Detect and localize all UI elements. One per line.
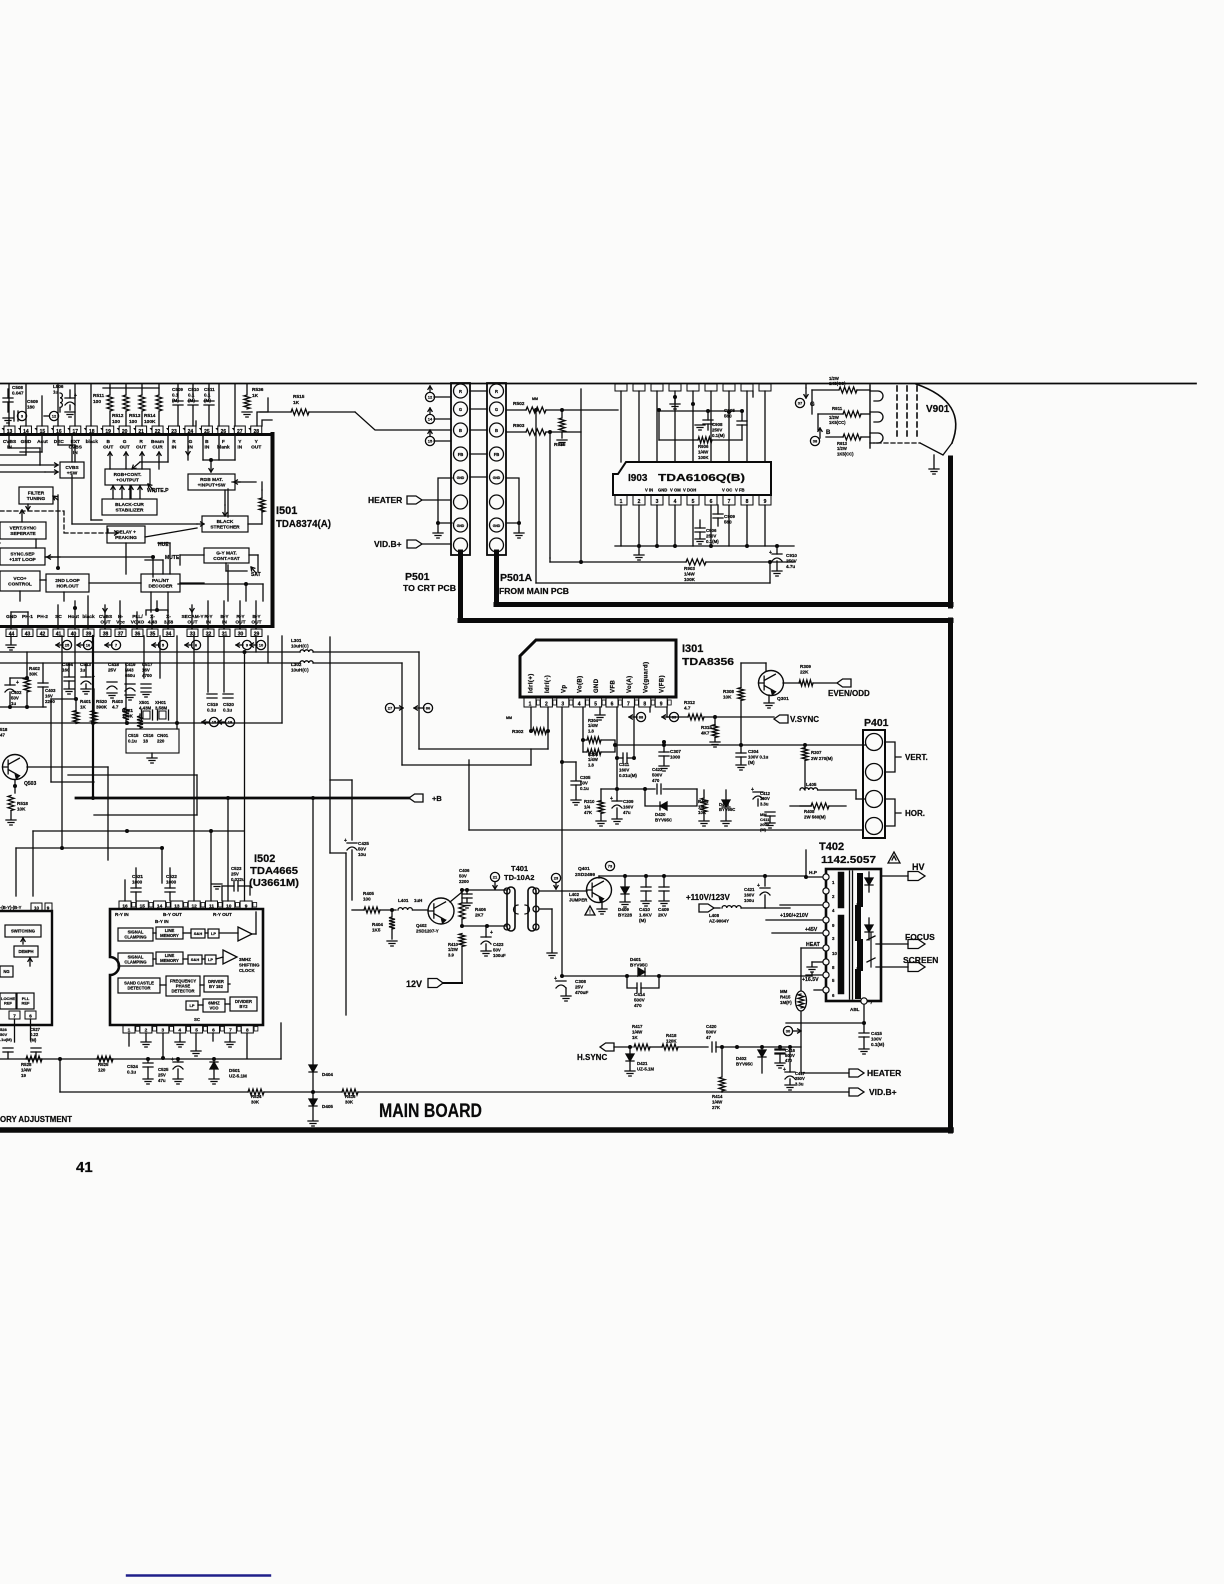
svg-text:0.1u: 0.1u (207, 708, 216, 713)
svg-text:25V: 25V (158, 1072, 166, 1077)
svg-text:R406: R406 (475, 907, 486, 912)
I501 block FILTER TUNING (19, 487, 53, 504)
svg-text:5: 5 (594, 702, 597, 708)
terminal H.SYNC (600, 1043, 614, 1051)
svg-text:HOR.OUT: HOR.OUT (56, 583, 78, 589)
svg-text:FOCUS: FOCUS (905, 932, 935, 942)
resistor R302 (530, 707, 532, 731)
svg-text:PLL/: PLL/ (132, 614, 143, 620)
svg-text:C415: C415 (871, 1031, 882, 1036)
svg-text:FILTER: FILTER (28, 490, 45, 496)
svg-text:1K: 1K (252, 393, 259, 399)
svg-text:50V: 50V (459, 873, 467, 878)
svg-text:R310: R310 (584, 799, 595, 804)
svg-text:250V: 250V (786, 559, 798, 564)
svg-text:22K: 22K (800, 670, 809, 675)
svg-text:34: 34 (166, 631, 172, 637)
svg-text:Q401: Q401 (578, 866, 590, 872)
terminal HEATER (801, 1072, 849, 1074)
svg-text:C423: C423 (493, 942, 504, 947)
svg-text:47K: 47K (584, 810, 593, 815)
svg-text:R911: R911 (832, 406, 843, 411)
svg-text:25V: 25V (575, 985, 584, 990)
svg-text:SCREEN: SCREEN (903, 955, 938, 965)
I502 block LINE MEMORY 2 (156, 952, 183, 964)
svg-text:R903: R903 (513, 423, 525, 429)
svg-text:V(FB): V(FB) (660, 675, 666, 693)
svg-text:EVEN/ODD: EVEN/ODD (828, 689, 870, 698)
svg-text:500V: 500V (706, 1029, 716, 1034)
svg-text:L401: L401 (398, 898, 409, 903)
pin7 drop (633, 707, 635, 758)
svg-text:0.1u: 0.1u (127, 1070, 136, 1075)
svg-text:R935: R935 (554, 442, 566, 448)
capacitor C609 (14, 411, 18, 421)
svg-text:120K: 120K (666, 1038, 677, 1043)
svg-text:12: 12 (192, 904, 198, 910)
svg-text:R515: R515 (293, 394, 305, 400)
svg-text:BY2: BY2 (239, 1004, 248, 1009)
svg-text:BYV95C: BYV95C (736, 1061, 754, 1066)
svg-text:1/4W: 1/4W (712, 1099, 723, 1104)
svg-text:GND: GND (493, 524, 501, 528)
svg-text:MM: MM (532, 397, 538, 401)
svg-text:I502: I502 (254, 853, 275, 865)
svg-text:R: R (495, 389, 498, 394)
svg-text:DEMPH: DEMPH (18, 949, 33, 954)
P501A heavy wire (494, 552, 499, 604)
svg-text:100: 100 (363, 897, 371, 902)
svg-text:C422: C422 (652, 767, 663, 772)
svg-text:DECODER: DECODER (149, 583, 174, 589)
svg-text:SYNC.SEP: SYNC.SEP (10, 551, 35, 557)
svg-text:7: 7 (728, 499, 731, 505)
svg-text:4: 4 (578, 702, 581, 708)
svg-text:100K: 100K (684, 577, 696, 582)
svg-text:1/4W: 1/4W (21, 1067, 32, 1072)
I501 block RGB MAT +INPUT+SW (188, 474, 235, 490)
svg-text:Vcc: Vcc (116, 619, 125, 625)
T402 secondary winding (858, 876, 860, 996)
wire pin2 down to L301 wire (547, 731, 549, 749)
svg-text:+: + (92, 674, 95, 680)
I501 block SYNC.SEP 1ST LOOP (0, 548, 45, 565)
svg-text:I301: I301 (682, 643, 703, 655)
I502 block SAND CASTLE DETECTOR (118, 978, 160, 993)
capacitor C607 (65, 398, 75, 405)
svg-text:D501: D501 (229, 1068, 240, 1073)
resistor R304 (582, 707, 584, 752)
svg-text:100K: 100K (122, 714, 134, 719)
svg-text:TDA8356: TDA8356 (682, 656, 734, 668)
svg-text:DETECTOR: DETECTOR (128, 985, 151, 990)
svg-text:REF: REF (22, 1001, 31, 1006)
svg-text:R511: R511 (93, 393, 105, 399)
svg-text:C609: C609 (27, 399, 38, 404)
I501 block VERT.SYNC SEPERATE (0, 522, 46, 539)
svg-text:100: 100 (93, 399, 101, 405)
svg-text:MM: MM (780, 989, 788, 994)
svg-text:L506: L506 (53, 384, 64, 389)
capacitor C307 (659, 752, 669, 756)
svg-text:38: 38 (103, 631, 109, 637)
svg-text:Vo(guard): Vo(guard) (643, 662, 649, 694)
node circled 12 (49, 411, 58, 420)
svg-text:13: 13 (7, 429, 13, 435)
diode D404 (312, 798, 314, 1064)
terminal HV (881, 875, 908, 877)
svg-text:C403: C403 (45, 688, 56, 693)
transistor Q402 (428, 898, 454, 924)
svg-text:10: 10 (259, 643, 264, 648)
capacitor C524 (147, 1059, 149, 1062)
svg-text:CUR: CUR (152, 444, 163, 450)
svg-text:BLACK-CUR: BLACK-CUR (115, 502, 144, 508)
svg-text:23: 23 (554, 876, 559, 881)
svg-text:H-: H- (118, 614, 123, 620)
svg-text:RGB+CONT.: RGB+CONT. (114, 472, 142, 478)
svg-text:16: 16 (86, 643, 91, 648)
svg-text:R-Y: R-Y (204, 614, 213, 620)
svg-text:GND: GND (658, 488, 667, 493)
I502 block 6MHZ VCO (203, 999, 225, 1012)
svg-text:1K5(CC): 1K5(CC) (837, 451, 854, 456)
left IC bottom pins (9, 1011, 20, 1019)
svg-text:14: 14 (23, 429, 29, 435)
svg-text:18: 18 (143, 738, 148, 743)
svg-text:0.01u(M): 0.01u(M) (619, 773, 637, 778)
svg-text:+: + (757, 883, 760, 889)
svg-text:+: + (74, 393, 77, 399)
capacitor C425 (351, 780, 353, 840)
svg-text:1.6KV: 1.6KV (639, 913, 653, 918)
C414 snubber loop (627, 976, 659, 988)
svg-text:+: + (610, 796, 613, 802)
svg-text:390K: 390K (96, 705, 108, 710)
capacitor C409 (659, 887, 669, 891)
svg-text:3.3u: 3.3u (795, 1081, 804, 1086)
svg-text:19: 19 (21, 1073, 26, 1078)
pin5 GND stub (599, 707, 601, 714)
svg-text:R403: R403 (112, 699, 123, 704)
I502 block SIGNAL CLAMPING 2 (118, 953, 153, 966)
CRT socket V901 (870, 384, 956, 474)
svg-text:R525: R525 (98, 1062, 109, 1067)
svg-text:R415: R415 (780, 994, 791, 999)
svg-text:MUTE: MUTE (165, 555, 180, 561)
svg-text:88: 88 (639, 715, 644, 720)
node circled 27 (385, 703, 394, 712)
svg-text:V OC: V OC (722, 488, 732, 493)
svg-text:B-Y OUT: B-Y OUT (163, 912, 182, 917)
svg-text:3MHZ: 3MHZ (239, 957, 251, 962)
left IC block DEMPH (14, 946, 38, 957)
svg-text:18: 18 (89, 429, 95, 435)
svg-text:(M): (M) (172, 398, 179, 403)
svg-text:GND: GND (493, 476, 501, 480)
terminal HEATER (left) (407, 496, 422, 504)
svg-text:15: 15 (428, 439, 433, 444)
I502 block SIGNAL CLAMPING 1 (118, 928, 153, 941)
svg-text:F: F (222, 439, 225, 445)
svg-text:SHIFTING: SHIFTING (239, 962, 260, 967)
wire HOR long (469, 829, 863, 831)
svg-text:1.8: 1.8 (588, 728, 594, 733)
pin6 drop (616, 707, 618, 789)
capacitor bank C515 C516 CN01 (126, 729, 179, 753)
svg-text:V OM: V OM (670, 488, 681, 493)
svg-text:C307: C307 (670, 749, 681, 754)
capacitor C525 (173, 1062, 183, 1069)
resistor R903 (506, 431, 526, 433)
resistor R935 (561, 410, 563, 417)
wire R911 net (817, 414, 819, 430)
svg-text:6: 6 (710, 499, 713, 505)
svg-text:3.3u: 3.3u (760, 801, 769, 806)
svg-text:CN01: CN01 (157, 733, 169, 738)
svg-text:+190/+210V: +190/+210V (780, 913, 809, 919)
svg-text:27: 27 (237, 429, 243, 435)
svg-text:V901: V901 (926, 404, 950, 415)
svg-text:0.1(M): 0.1(M) (712, 433, 725, 438)
ground rail y707 (0, 706, 46, 708)
svg-text:Idri(+): Idri(+) (529, 673, 535, 693)
svg-text:STRETCHER: STRETCHER (210, 524, 240, 530)
svg-text:MEMORY: MEMORY (160, 933, 179, 938)
svg-text:17: 17 (73, 429, 79, 435)
resistor R406 (461, 892, 463, 902)
svg-text:160V: 160V (744, 892, 754, 897)
svg-text:C508: C508 (12, 385, 23, 390)
ground under pin44 (10, 636, 12, 644)
wire L301 drop (418, 652, 420, 749)
svg-text:25V: 25V (231, 871, 239, 876)
svg-text:MM: MM (506, 716, 512, 720)
svg-text:LP: LP (189, 1003, 194, 1008)
svg-text:VERT.SYNC: VERT.SYNC (10, 525, 37, 531)
stub connector boxes on top line (615, 384, 771, 391)
svg-text:16: 16 (122, 904, 128, 910)
svg-text:TDA4665: TDA4665 (250, 865, 298, 877)
CRT-PCB box bottom border (496, 602, 951, 607)
svg-text:100V: 100V (871, 1037, 883, 1042)
svg-text:1K5: 1K5 (372, 928, 381, 933)
wire y411 (659, 410, 742, 412)
svg-text:LP: LP (208, 957, 213, 962)
I501 top pin row pins 13-28 (2, 426, 262, 435)
svg-text:25: 25 (204, 429, 210, 435)
svg-text:1/4W: 1/4W (684, 572, 695, 577)
svg-text:R512: R512 (112, 413, 124, 419)
svg-text:PH-2: PH-2 (37, 614, 48, 620)
resistor R524 (248, 1089, 264, 1095)
wire Q401 collector rail (598, 876, 600, 878)
svg-text:1u: 1u (53, 390, 59, 395)
connector P401 (863, 730, 885, 838)
I502 amp 2 (223, 950, 237, 964)
svg-text:11: 11 (209, 904, 214, 910)
wire L302 drop (401, 663, 403, 765)
svg-text:1: 1 (620, 499, 623, 505)
svg-text:25V: 25V (108, 668, 117, 673)
svg-text:C525: C525 (158, 1067, 169, 1072)
svg-text:0.1: 0.1 (172, 393, 179, 398)
svg-text:GND: GND (457, 476, 465, 480)
T402 internal diodes (865, 878, 873, 885)
node G circled 37 (805, 388, 807, 398)
svg-text:8: 8 (643, 702, 646, 708)
CRT-PCB box right border (948, 458, 953, 606)
svg-text:9: 9 (764, 499, 767, 505)
svg-text:0.1u: 0.1u (580, 786, 589, 791)
svg-text:47: 47 (0, 732, 5, 737)
svg-text:SEPERATE: SEPERATE (10, 531, 36, 537)
components above I501 (9, 384, 272, 426)
svg-text:ABL: ABL (850, 1007, 860, 1012)
circled pin refs to P501 (429, 386, 431, 392)
svg-text:C509: C509 (172, 387, 183, 392)
I502 top pin row (119, 901, 257, 910)
svg-text:9: 9 (245, 904, 248, 910)
wire +16.5V rail (562, 975, 812, 977)
svg-text:AZ-9004Y: AZ-9004Y (709, 918, 729, 923)
svg-text:G: G (495, 407, 498, 412)
terminal VID.B+ (722, 1091, 849, 1093)
svg-text:HV: HV (912, 862, 925, 872)
svg-text:B: B (106, 439, 110, 445)
svg-text:D420: D420 (655, 812, 666, 817)
svg-text:47u: 47u (158, 1078, 166, 1083)
svg-text:12: 12 (428, 395, 433, 400)
resistor R408 (811, 803, 829, 809)
svg-text:16V: 16V (45, 693, 53, 698)
svg-text:38: 38 (813, 439, 818, 444)
svg-text:21: 21 (138, 429, 144, 435)
svg-text:R520: R520 (96, 699, 107, 704)
svg-text:BYV95C: BYV95C (630, 963, 649, 968)
svg-text:C522: C522 (166, 874, 177, 879)
svg-text:36: 36 (135, 631, 141, 637)
capacitor C417 (785, 1072, 795, 1079)
svg-text:(M): (M) (188, 398, 195, 403)
wire Q301 collector (741, 662, 766, 664)
svg-text:Vo(B): Vo(B) (578, 675, 584, 693)
svg-text:HEAT: HEAT (806, 942, 821, 948)
svg-text:R906: R906 (698, 444, 709, 449)
Q402 collector wire (450, 892, 462, 902)
resistor R502 (506, 409, 526, 411)
svg-text:BLACK: BLACK (217, 519, 234, 525)
svg-text:220: 220 (157, 738, 165, 743)
svg-text:R408: R408 (804, 809, 815, 814)
svg-text:2W 560(M): 2W 560(M) (804, 814, 826, 819)
svg-text:+110V/123V: +110V/123V (686, 893, 730, 902)
node circled 88 (636, 712, 645, 721)
svg-text:7: 7 (13, 1014, 16, 1019)
svg-text:NG: NG (3, 969, 9, 974)
svg-text:CVBS: CVBS (3, 439, 17, 445)
terminal V.SYNC (774, 715, 788, 723)
resistor R913 (826, 436, 843, 438)
svg-text:GND: GND (6, 614, 17, 620)
svg-text:2ND LOOP: 2ND LOOP (55, 578, 80, 584)
wire to heater (762, 1046, 801, 1048)
svg-text:OUT: OUT (103, 444, 113, 450)
svg-text:X-: X- (166, 614, 171, 620)
svg-text:L408: L408 (709, 913, 720, 918)
svg-text:IN: IN (222, 619, 227, 625)
svg-text:+: + (16, 680, 19, 686)
svg-text:+: + (490, 930, 493, 936)
I502 block DIVIDER BY2 (230, 997, 257, 1011)
svg-text:S&H: S&H (191, 957, 200, 962)
svg-text:R: R (139, 439, 143, 445)
svg-text:+: + (783, 1067, 786, 1073)
svg-text:DETECTOR: DETECTOR (172, 988, 195, 993)
svg-text:OUT: OUT (251, 444, 261, 450)
svg-text:X-: X- (150, 614, 155, 620)
svg-text:PAL/NT: PAL/NT (152, 578, 169, 584)
wire VERT net (615, 744, 866, 746)
svg-text:4.7: 4.7 (112, 705, 119, 710)
svg-text:15: 15 (212, 720, 217, 725)
svg-text:Q503: Q503 (24, 781, 36, 787)
resistor R416 (313, 1091, 342, 1093)
svg-text:15: 15 (140, 904, 146, 910)
Q401 emitter ground (601, 901, 603, 908)
transformer T402 body (826, 869, 881, 1001)
svg-text:MAIN BOARD: MAIN BOARD (379, 1101, 482, 1122)
svg-text:4: 4 (674, 499, 677, 505)
svg-text:LP: LP (211, 931, 216, 936)
svg-text:100: 100 (129, 419, 137, 425)
svg-text:C520: C520 (223, 702, 234, 707)
resistor R906 (1/4W 100K) (686, 559, 706, 565)
svg-text:UZ-5.1M: UZ-5.1M (637, 1066, 654, 1071)
svg-text:L405: L405 (806, 782, 817, 787)
I502 amp 1 (238, 927, 252, 941)
svg-text:41: 41 (56, 631, 62, 637)
svg-text:TO CRT PCB: TO CRT PCB (403, 584, 456, 593)
svg-text:CLOCK: CLOCK (239, 968, 255, 973)
left IC top pins (31, 903, 42, 911)
svg-text:4700: 4700 (142, 673, 152, 678)
svg-text:20: 20 (122, 429, 128, 435)
svg-text:C510: C510 (188, 387, 199, 392)
svg-text:4.43: 4.43 (148, 619, 158, 625)
svg-text:G: G (123, 439, 127, 445)
svg-text:R315: R315 (701, 725, 712, 730)
svg-text:WRITE.P: WRITE.P (147, 488, 169, 494)
svg-text:black: black (82, 614, 95, 620)
svg-text:22: 22 (155, 429, 161, 435)
svg-text:CONTROL: CONTROL (8, 581, 32, 587)
wire pin8 stub (649, 707, 651, 712)
I501 block CVBS+SW (60, 462, 84, 478)
svg-text:D402: D402 (736, 1056, 747, 1061)
I501 block G-Y MAT CONT+SAT (204, 548, 249, 563)
svg-text:Q402: Q402 (416, 923, 427, 928)
svg-text:10: 10 (226, 904, 232, 910)
resistor R906 (1/4W 100K) (658, 410, 660, 440)
node circled 23 (551, 873, 560, 882)
svg-text:26: 26 (221, 429, 227, 435)
svg-text:30K: 30K (251, 1099, 260, 1104)
svg-text:25: 25 (65, 643, 70, 648)
node B circled 38 (819, 428, 821, 438)
svg-text:C524: C524 (127, 1064, 138, 1069)
resistor R415 fusible (796, 991, 807, 1011)
